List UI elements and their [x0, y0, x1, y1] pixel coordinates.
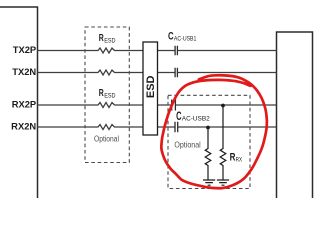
dashed box ESD resistors (optional)	[85, 27, 129, 163]
wire TX2N right of cap	[177, 72, 276, 74]
svg-text:TX2N: TX2N	[12, 66, 36, 77]
svg-text:ESD: ESD	[145, 75, 157, 98]
IC block right (partial)	[277, 32, 313, 198]
wire RX2N with resistor zigzag	[38, 125, 176, 130]
capacitor on TX2N	[175, 68, 177, 78]
resistor R_RX left (from RX2N)	[205, 128, 211, 180]
svg-text:TX2P: TX2P	[13, 44, 36, 55]
wire RX2N right of cap	[178, 126, 277, 128]
svg-text:RX2N: RX2N	[11, 121, 36, 132]
wire TX2P with resistor R_ESD zigzag	[38, 48, 176, 53]
wire RX2P right of cap	[175, 104, 276, 106]
capacitor C_AC-USB1 on TX2P	[175, 46, 177, 56]
ESD block	[143, 42, 158, 135]
ground left	[203, 180, 215, 185]
wire TX2N with resistor zigzag	[38, 70, 176, 75]
IC block left (partial)	[0, 7, 38, 198]
svg-text:Optional: Optional	[94, 135, 119, 144]
svg-text:Optional: Optional	[174, 139, 200, 149]
resistor R_RX right (from RX2P)	[220, 106, 226, 180]
svg-text:RX2P: RX2P	[12, 99, 37, 110]
wire TX2P right of cap	[177, 50, 276, 52]
junction node on RX2N	[206, 126, 210, 130]
dashed box RX termination (optional)	[168, 95, 250, 188]
red annotation circle	[161, 75, 267, 188]
wire RX2P with resistor zigzag	[38, 103, 172, 108]
ground right	[217, 180, 229, 185]
capacitor on RX2P	[172, 100, 176, 111]
junction node on RX2P	[221, 104, 225, 108]
capacitor C_AC-USB2 on RX2N	[175, 122, 178, 133]
